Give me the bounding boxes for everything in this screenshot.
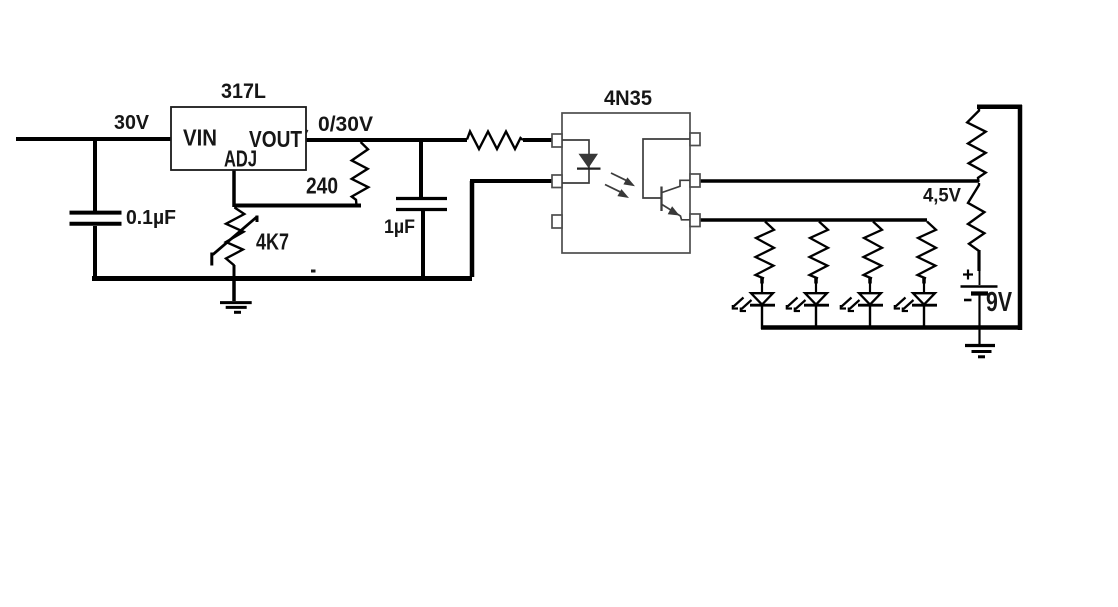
svg-text:4K7: 4K7 xyxy=(256,229,289,255)
svg-text:0/30V: 0/30V xyxy=(318,113,373,136)
svg-text:4,5V: 4,5V xyxy=(923,185,961,207)
svg-text:ADJ: ADJ xyxy=(224,146,257,172)
svg-text:317L: 317L xyxy=(221,80,266,103)
svg-text:4N35: 4N35 xyxy=(604,87,652,110)
svg-text:0.1µF: 0.1µF xyxy=(126,207,176,229)
svg-text:VIN: VIN xyxy=(183,125,217,151)
svg-text:240: 240 xyxy=(306,173,338,199)
svg-text:9V: 9V xyxy=(986,286,1012,317)
svg-text:30V: 30V xyxy=(114,112,150,134)
svg-text:1µF: 1µF xyxy=(384,217,415,238)
